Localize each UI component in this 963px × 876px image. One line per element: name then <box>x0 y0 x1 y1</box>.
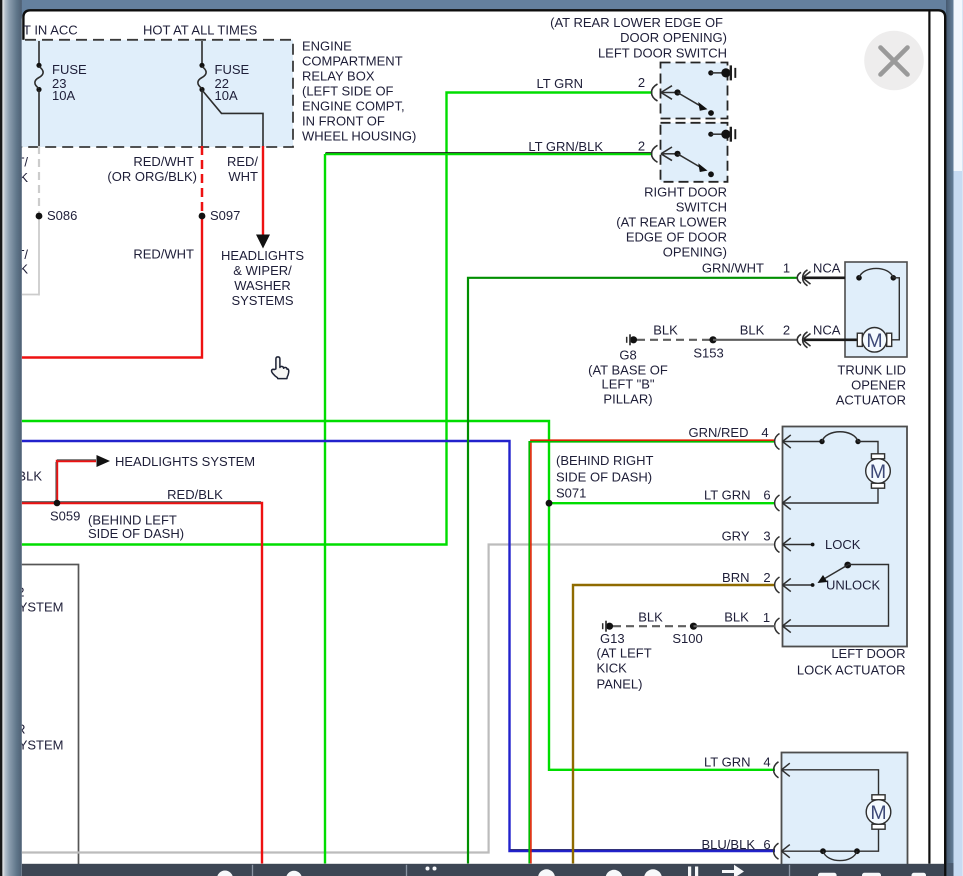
svg-text:4: 4 <box>763 755 770 770</box>
svg-text:10A: 10A <box>215 88 238 103</box>
svg-text:(AT BASE OF: (AT BASE OF <box>588 363 668 378</box>
svg-text:SIDE OF DASH): SIDE OF DASH) <box>556 470 652 485</box>
svg-text:M: M <box>870 461 886 483</box>
svg-text:LEFT "B": LEFT "B" <box>601 377 654 392</box>
svg-text:FUSE: FUSE <box>52 62 87 77</box>
svg-text:BLK: BLK <box>740 323 765 338</box>
svg-text:BLU/BLK: BLU/BLK <box>702 837 756 852</box>
svg-text:LOCK ACTUATOR: LOCK ACTUATOR <box>797 663 906 678</box>
svg-text:RED/BLK: RED/BLK <box>167 487 223 502</box>
svg-text:2: 2 <box>763 570 770 585</box>
svg-text:3: 3 <box>763 529 770 544</box>
svg-text:FUSE: FUSE <box>215 62 250 77</box>
svg-text:LT GRN/BLK: LT GRN/BLK <box>528 139 603 154</box>
svg-text:T IN ACC: T IN ACC <box>23 23 78 38</box>
svg-text:EDGE OF DOOR: EDGE OF DOOR <box>626 230 727 245</box>
svg-text:UNLOCK: UNLOCK <box>826 578 881 593</box>
svg-text:S153: S153 <box>693 346 723 361</box>
svg-text:BRN: BRN <box>722 570 749 585</box>
svg-text:ENGINE: ENGINE <box>302 39 352 54</box>
svg-text:SYSTEMS: SYSTEMS <box>231 293 293 308</box>
svg-text:G13: G13 <box>600 631 625 646</box>
svg-text:RED/WHT: RED/WHT <box>133 247 194 262</box>
svg-text:BLK: BLK <box>653 323 678 338</box>
svg-text:6: 6 <box>763 837 770 852</box>
svg-text:LEFT DOOR SWITCH: LEFT DOOR SWITCH <box>598 46 727 61</box>
svg-text:PANEL): PANEL) <box>597 677 643 692</box>
svg-text:RED/: RED/ <box>227 154 258 169</box>
svg-text:HEADLIGHTS: HEADLIGHTS <box>221 248 304 263</box>
svg-text:LEFT DOOR: LEFT DOOR <box>831 646 905 661</box>
svg-text:TRUNK LID: TRUNK LID <box>837 363 906 378</box>
svg-text:SIDE OF DASH): SIDE OF DASH) <box>88 526 184 541</box>
svg-text:GRY: GRY <box>722 529 750 544</box>
svg-text:4: 4 <box>761 425 768 440</box>
svg-text:6: 6 <box>763 488 770 503</box>
svg-text:(LEFT SIDE OF: (LEFT SIDE OF <box>302 84 394 99</box>
svg-text:S059: S059 <box>50 509 80 524</box>
svg-text:2: 2 <box>638 75 645 90</box>
svg-text:BLK: BLK <box>724 610 749 625</box>
svg-text:IN FRONT OF: IN FRONT OF <box>302 114 385 129</box>
svg-text:WHT: WHT <box>228 169 258 184</box>
svg-text:DOOR OPENING): DOOR OPENING) <box>620 30 727 45</box>
svg-text:2: 2 <box>783 323 790 338</box>
svg-text:LOCK: LOCK <box>825 537 861 552</box>
svg-text:WASHER: WASHER <box>234 278 291 293</box>
svg-text:RELAY BOX: RELAY BOX <box>302 69 375 84</box>
svg-text:(AT REAR LOWER: (AT REAR LOWER <box>616 215 727 230</box>
svg-text:HOT AT ALL TIMES: HOT AT ALL TIMES <box>143 23 257 38</box>
svg-text:PILLAR): PILLAR) <box>603 392 652 407</box>
svg-text:S097: S097 <box>210 208 240 223</box>
svg-text:LT GRN: LT GRN <box>537 76 583 91</box>
svg-text:NCA: NCA <box>813 261 841 276</box>
svg-text:BLK: BLK <box>638 610 663 625</box>
svg-text:& WIPER/: & WIPER/ <box>233 263 292 278</box>
svg-text:1: 1 <box>783 261 790 276</box>
svg-text:HEADLIGHTS SYSTEM: HEADLIGHTS SYSTEM <box>115 454 255 469</box>
svg-text:GRN/WHT: GRN/WHT <box>702 261 764 276</box>
svg-text:RIGHT DOOR: RIGHT DOOR <box>644 185 727 200</box>
svg-text:(OR ORG/BLK): (OR ORG/BLK) <box>107 169 197 184</box>
svg-text:S086: S086 <box>47 208 77 223</box>
svg-text:(AT LEFT: (AT LEFT <box>597 646 652 661</box>
svg-text:NCA: NCA <box>813 323 841 338</box>
svg-text:2: 2 <box>638 139 645 154</box>
svg-text:S100: S100 <box>672 631 702 646</box>
svg-text:1: 1 <box>763 610 770 625</box>
svg-text:G8: G8 <box>619 348 636 363</box>
svg-text:LT GRN: LT GRN <box>704 755 750 770</box>
svg-text:ENGINE COMPT,: ENGINE COMPT, <box>302 99 405 114</box>
svg-text:WHEEL HOUSING): WHEEL HOUSING) <box>302 129 416 144</box>
svg-text:(BEHIND RIGHT: (BEHIND RIGHT <box>556 453 654 468</box>
svg-text:RED/WHT: RED/WHT <box>133 154 194 169</box>
svg-text:LT GRN: LT GRN <box>704 488 750 503</box>
svg-text:10A: 10A <box>52 88 75 103</box>
svg-text:OPENING): OPENING) <box>663 245 727 260</box>
svg-text:GRN/RED: GRN/RED <box>689 425 749 440</box>
svg-text:OPENER: OPENER <box>851 378 906 393</box>
svg-text:COMPARTMENT: COMPARTMENT <box>302 54 403 69</box>
svg-text:S071: S071 <box>556 486 586 501</box>
svg-text:(AT REAR LOWER EDGE OF: (AT REAR LOWER EDGE OF <box>550 15 723 30</box>
svg-text:M: M <box>870 802 886 824</box>
svg-text:KICK: KICK <box>597 661 628 676</box>
svg-text:M: M <box>866 330 882 352</box>
svg-text:ACTUATOR: ACTUATOR <box>836 393 906 408</box>
svg-text:SWITCH: SWITCH <box>676 200 727 215</box>
